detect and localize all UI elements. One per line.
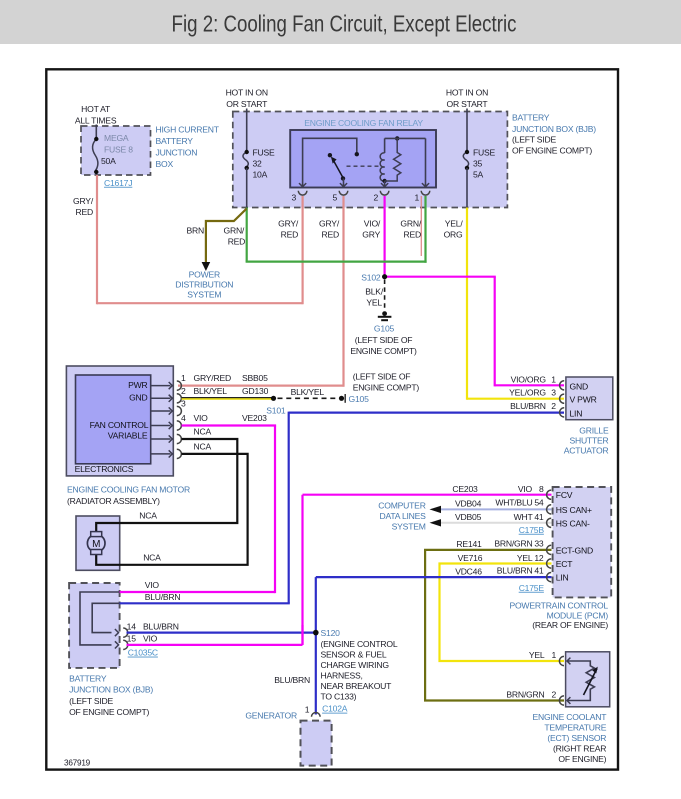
svg-text:RED: RED xyxy=(404,230,421,240)
svg-text:VIO: VIO xyxy=(518,484,533,494)
svg-text:COMPUTER: COMPUTER xyxy=(378,501,425,511)
svg-text:ENGINE COMPT): ENGINE COMPT) xyxy=(353,382,420,392)
svg-text:BLK/: BLK/ xyxy=(365,286,384,296)
svg-text:POWERTRAIN CONTROL: POWERTRAIN CONTROL xyxy=(509,601,608,611)
svg-text:ACTUATOR: ACTUATOR xyxy=(564,445,609,455)
svg-text:GND: GND xyxy=(129,393,147,403)
svg-text:BATTERY: BATTERY xyxy=(69,673,107,683)
svg-text:VIO/: VIO/ xyxy=(364,219,381,229)
svg-text:8: 8 xyxy=(539,484,544,494)
svg-text:OR START: OR START xyxy=(447,99,489,109)
svg-text:C1617J: C1617J xyxy=(104,178,132,188)
svg-text:ENGINE COMPT): ENGINE COMPT) xyxy=(350,346,417,356)
svg-text:ENGINE COOLANT: ENGINE COOLANT xyxy=(532,712,607,722)
svg-text:BRN: BRN xyxy=(187,225,204,235)
svg-text:BRN/GRN: BRN/GRN xyxy=(494,538,532,548)
svg-text:GND: GND xyxy=(570,381,588,391)
svg-text:G105: G105 xyxy=(349,394,370,404)
svg-text:PWR: PWR xyxy=(128,380,147,390)
svg-text:(ECT) SENSOR: (ECT) SENSOR xyxy=(547,733,606,743)
svg-text:VIO: VIO xyxy=(143,634,158,644)
svg-text:HIGH CURRENT: HIGH CURRENT xyxy=(156,124,220,134)
svg-text:3: 3 xyxy=(292,192,297,202)
svg-text:15: 15 xyxy=(127,634,137,644)
svg-text:BLU/BRN: BLU/BRN xyxy=(145,592,181,602)
svg-text:50A: 50A xyxy=(101,156,116,166)
svg-text:5: 5 xyxy=(332,192,337,202)
svg-text:(LEFT SIDE: (LEFT SIDE xyxy=(69,696,113,706)
svg-text:S101: S101 xyxy=(266,405,286,415)
svg-text:BATTERY: BATTERY xyxy=(156,136,194,146)
svg-text:367919: 367919 xyxy=(64,759,91,768)
svg-text:TO C133): TO C133) xyxy=(321,691,357,701)
svg-text:WHT/BLU: WHT/BLU xyxy=(495,498,532,508)
svg-text:2: 2 xyxy=(551,401,556,411)
svg-text:OF ENGINE COMPT): OF ENGINE COMPT) xyxy=(512,145,592,155)
svg-text:2: 2 xyxy=(181,386,186,396)
svg-text:BLK/YEL: BLK/YEL xyxy=(291,387,325,397)
svg-text:NEAR BREAKOUT: NEAR BREAKOUT xyxy=(321,681,393,691)
svg-text:41: 41 xyxy=(534,512,544,522)
svg-text:5A: 5A xyxy=(473,170,484,180)
svg-text:VARIABLE: VARIABLE xyxy=(108,430,148,440)
svg-text:HARNESS,: HARNESS, xyxy=(321,670,363,680)
svg-text:NCA: NCA xyxy=(143,553,161,563)
svg-text:1: 1 xyxy=(551,650,556,660)
svg-text:YEL: YEL xyxy=(366,297,382,307)
svg-text:VE203: VE203 xyxy=(242,413,267,423)
svg-text:OF ENGINE): OF ENGINE) xyxy=(558,754,606,764)
svg-text:VDB05: VDB05 xyxy=(455,512,482,522)
svg-text:3: 3 xyxy=(181,399,186,409)
svg-text:NCA: NCA xyxy=(194,441,212,451)
svg-text:DISTRIBUTION: DISTRIBUTION xyxy=(175,280,233,290)
svg-text:OF ENGINE COMPT): OF ENGINE COMPT) xyxy=(69,707,149,717)
svg-text:RED: RED xyxy=(228,236,245,246)
svg-text:GRILLE: GRILLE xyxy=(579,425,609,435)
svg-text:RE141: RE141 xyxy=(456,539,482,549)
svg-text:Fig 2: Cooling Fan Circuit, Ex: Fig 2: Cooling Fan Circuit, Except Elect… xyxy=(172,12,517,37)
svg-text:GENERATOR: GENERATOR xyxy=(245,710,297,720)
svg-text:CHARGE WIRING: CHARGE WIRING xyxy=(321,660,390,670)
svg-text:GD130: GD130 xyxy=(242,386,269,396)
svg-text:YEL/: YEL/ xyxy=(445,219,464,229)
svg-text:MEGA: MEGA xyxy=(104,133,129,143)
svg-text:C102A: C102A xyxy=(322,704,348,714)
svg-text:VDC46: VDC46 xyxy=(455,566,482,576)
svg-text:SBB05: SBB05 xyxy=(242,373,268,383)
svg-text:OR START: OR START xyxy=(226,99,268,109)
svg-text:BLU/BRN: BLU/BRN xyxy=(497,566,533,576)
svg-text:BATTERY: BATTERY xyxy=(512,113,550,123)
svg-text:(LEFT SIDE: (LEFT SIDE xyxy=(512,135,556,145)
svg-text:YEL/ORG: YEL/ORG xyxy=(509,388,546,398)
svg-text:VIO/ORG: VIO/ORG xyxy=(511,374,547,384)
svg-text:WHT: WHT xyxy=(514,512,534,522)
svg-text:GRY/: GRY/ xyxy=(278,219,299,229)
svg-text:VDB04: VDB04 xyxy=(455,498,482,508)
svg-text:54: 54 xyxy=(534,498,544,508)
svg-text:G105: G105 xyxy=(374,324,395,334)
svg-text:S120: S120 xyxy=(321,628,341,638)
svg-text:HS CAN-: HS CAN- xyxy=(556,518,590,528)
svg-text:SENSOR & FUEL: SENSOR & FUEL xyxy=(321,649,387,659)
svg-text:GRY: GRY xyxy=(362,230,380,240)
svg-text:14: 14 xyxy=(127,621,137,631)
svg-text:41: 41 xyxy=(534,566,544,576)
svg-text:C175E: C175E xyxy=(519,583,545,593)
svg-text:FAN CONTROL: FAN CONTROL xyxy=(90,420,149,430)
svg-text:(RADIATOR ASSEMBLY): (RADIATOR ASSEMBLY) xyxy=(67,496,160,506)
svg-text:SHUTTER: SHUTTER xyxy=(569,435,608,445)
svg-text:YEL: YEL xyxy=(517,553,533,563)
svg-text:GRY/RED: GRY/RED xyxy=(194,373,231,383)
svg-text:GRY/: GRY/ xyxy=(73,196,94,206)
svg-text:ELECTRONICS: ELECTRONICS xyxy=(75,464,134,474)
svg-text:10A: 10A xyxy=(253,170,268,180)
svg-text:ENGINE COOLING FAN RELAY: ENGINE COOLING FAN RELAY xyxy=(304,118,423,128)
svg-text:(LEFT SIDE OF: (LEFT SIDE OF xyxy=(355,335,413,345)
svg-text:RED: RED xyxy=(322,230,339,240)
svg-text:VE716: VE716 xyxy=(458,553,483,563)
svg-text:JUNCTION BOX (BJB): JUNCTION BOX (BJB) xyxy=(512,124,596,134)
svg-text:1: 1 xyxy=(414,192,419,202)
svg-text:JUNCTION BOX (BJB): JUNCTION BOX (BJB) xyxy=(69,685,153,695)
svg-text:RED: RED xyxy=(281,230,298,240)
svg-text:RED: RED xyxy=(76,207,93,217)
svg-text:FUSE: FUSE xyxy=(473,148,496,158)
svg-text:12: 12 xyxy=(534,553,544,563)
svg-text:GRN/: GRN/ xyxy=(224,225,245,235)
svg-text:BRN/GRN: BRN/GRN xyxy=(506,690,544,700)
svg-text:1: 1 xyxy=(181,373,186,383)
svg-text:ECT-GND: ECT-GND xyxy=(556,545,593,555)
svg-text:CE203: CE203 xyxy=(452,484,478,494)
svg-text:(ENGINE CONTROL: (ENGINE CONTROL xyxy=(321,639,398,649)
svg-text:V PWR: V PWR xyxy=(570,395,597,405)
svg-text:HOT AT: HOT AT xyxy=(81,104,111,114)
svg-text:2: 2 xyxy=(374,192,379,202)
svg-text:MODULE (PCM): MODULE (PCM) xyxy=(547,610,609,620)
svg-text:TEMPERATURE: TEMPERATURE xyxy=(544,723,606,733)
svg-text:32: 32 xyxy=(253,159,263,169)
svg-text:3: 3 xyxy=(551,388,556,398)
svg-text:YEL: YEL xyxy=(529,650,545,660)
svg-text:ENGINE COOLING FAN MOTOR: ENGINE COOLING FAN MOTOR xyxy=(67,485,190,495)
svg-text:SYSTEM: SYSTEM xyxy=(392,522,426,532)
svg-text:C1035C: C1035C xyxy=(128,648,158,658)
svg-text:2: 2 xyxy=(551,690,556,700)
svg-text:35: 35 xyxy=(473,159,483,169)
svg-text:ECT: ECT xyxy=(556,559,573,569)
svg-text:(REAR OF ENGINE): (REAR OF ENGINE) xyxy=(532,620,608,630)
svg-text:NCA: NCA xyxy=(194,427,212,437)
svg-text:BLK/YEL: BLK/YEL xyxy=(194,386,228,396)
svg-text:HOT IN ON: HOT IN ON xyxy=(446,88,488,98)
svg-text:LIN: LIN xyxy=(556,573,569,583)
svg-text:DATA LINES: DATA LINES xyxy=(379,511,426,521)
svg-text:(LEFT SIDE OF: (LEFT SIDE OF xyxy=(353,371,411,381)
svg-text:BLU/BRN: BLU/BRN xyxy=(143,621,179,631)
svg-text:4: 4 xyxy=(181,413,186,423)
svg-text:VIO: VIO xyxy=(145,580,160,590)
svg-text:HS CAN+: HS CAN+ xyxy=(556,505,592,515)
svg-text:ORG: ORG xyxy=(444,230,463,240)
svg-text:ALL TIMES: ALL TIMES xyxy=(75,115,117,125)
svg-text:FUSE: FUSE xyxy=(253,148,276,158)
svg-text:NCA: NCA xyxy=(139,511,157,521)
svg-text:POWER: POWER xyxy=(189,270,220,280)
svg-text:GRN/: GRN/ xyxy=(400,219,421,229)
svg-text:FUSE 8: FUSE 8 xyxy=(104,145,133,155)
svg-text:1: 1 xyxy=(551,374,556,384)
svg-text:VIO: VIO xyxy=(194,413,209,423)
svg-text:JUNCTION: JUNCTION xyxy=(156,147,198,157)
svg-text:(RIGHT REAR: (RIGHT REAR xyxy=(553,744,606,754)
svg-text:M: M xyxy=(92,539,100,550)
svg-text:S102: S102 xyxy=(361,272,381,282)
svg-text:LIN: LIN xyxy=(570,408,583,418)
svg-text:BLU/BRN: BLU/BRN xyxy=(274,675,310,685)
svg-text:BOX: BOX xyxy=(156,159,174,169)
svg-text:BLU/BRN: BLU/BRN xyxy=(510,401,546,411)
svg-text:HOT IN ON: HOT IN ON xyxy=(226,88,268,98)
svg-text:C175B: C175B xyxy=(519,525,545,535)
svg-text:33: 33 xyxy=(534,538,544,548)
svg-text:1: 1 xyxy=(305,704,310,714)
svg-text:SYSTEM: SYSTEM xyxy=(187,290,221,300)
svg-text:FCV: FCV xyxy=(556,490,573,500)
svg-text:GRY/: GRY/ xyxy=(319,219,340,229)
